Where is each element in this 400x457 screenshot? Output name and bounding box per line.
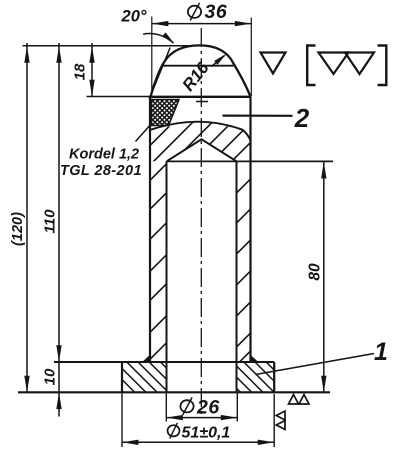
flange hatch right <box>198 361 309 394</box>
svg-text:80: 80 <box>307 263 324 281</box>
18 lower extension line <box>87 96 152 98</box>
hole wall right <box>236 161 238 392</box>
centerline <box>200 28 202 414</box>
dome base line <box>149 96 252 98</box>
dim 18 <box>91 43 93 96</box>
dim phi36 <box>151 17 153 95</box>
surface finish single triangle <box>261 53 286 74</box>
dim 80 <box>323 162 325 392</box>
flange (part 1) left edge <box>121 362 123 392</box>
top extension line (overall height datum) <box>23 45 194 47</box>
flange top line + 110 extension <box>54 361 274 363</box>
cap bottom curved edge <box>151 122 251 141</box>
dim phi51 +-0,1 <box>121 394 123 448</box>
R16 center tick <box>196 101 208 103</box>
bracketed triangle 1 <box>319 53 349 75</box>
dim (120) <box>26 43 28 392</box>
drill cone <box>167 139 237 161</box>
left tube wall hatch <box>146 160 171 364</box>
flange right edge <box>273 362 275 392</box>
phi symbol for 26 <box>180 400 193 412</box>
dim 110 <box>58 43 60 417</box>
20 degree tangent construction line <box>150 48 170 97</box>
phi symbol for 36 <box>188 6 201 18</box>
head/body outer right edge <box>249 97 251 362</box>
side surface marks (flange OD) <box>276 411 285 420</box>
svg-text:18: 18 <box>72 63 89 80</box>
dome R16 outline (part 2 head) <box>151 45 251 96</box>
hole wall left <box>166 161 168 392</box>
R16 leader and arrow <box>212 56 225 67</box>
weld fillet left <box>142 355 150 362</box>
bracket left <box>307 46 315 86</box>
bracketed triangle 2 <box>345 53 374 75</box>
svg-text:2: 2 <box>294 103 310 133</box>
svg-text:10: 10 <box>42 368 59 385</box>
svg-text:20°: 20° <box>121 8 147 26</box>
svg-text:26: 26 <box>196 397 220 419</box>
svg-text:110: 110 <box>42 209 59 234</box>
sphere-cone tangent edge line <box>161 65 234 67</box>
svg-text:1: 1 <box>374 338 388 366</box>
right tube wall hatch <box>233 175 255 369</box>
part label 2 leader <box>223 114 293 116</box>
dim phi26 <box>165 393 167 422</box>
flange hatch left <box>81 361 204 394</box>
svg-text:51±0,1: 51±0,1 <box>182 425 231 442</box>
Kordel leader <box>136 124 152 142</box>
head cross-section hatch <box>92 115 318 165</box>
weld fillet right <box>251 355 259 362</box>
svg-text:36: 36 <box>205 1 228 23</box>
bracket right <box>378 46 387 86</box>
bottom surface marks (flange underside) <box>289 395 299 404</box>
hole shoulder line + 80 extension line <box>167 160 334 162</box>
svg-text:(120): (120) <box>10 212 26 246</box>
dim 10 (outside arrow below) <box>56 393 61 410</box>
svg-text:Kordel 1,2: Kordel 1,2 <box>69 147 139 163</box>
phi symbol for 51 <box>168 425 180 436</box>
flange bottom line + extensions both sides <box>18 391 330 393</box>
part label 1 leader <box>256 354 375 375</box>
knurl patch (Kordel) <box>112 96 218 128</box>
head/body outer left edge <box>149 97 151 362</box>
svg-text:TGL 28-201: TGL 28-201 <box>60 163 142 179</box>
